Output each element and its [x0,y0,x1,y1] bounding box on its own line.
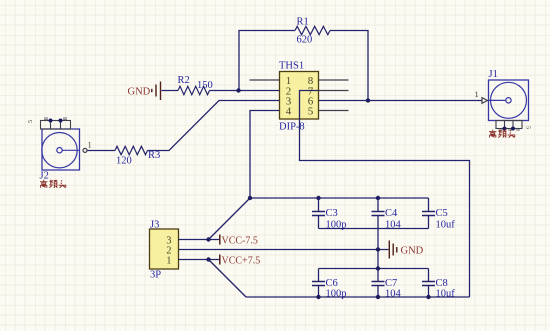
wire GND to R2 [162,90,179,92]
junction R1/pin6 [366,98,370,102]
wire pin 5 stub [319,110,349,112]
wire R1 left leg [239,31,295,91]
junction center column / GND wire [376,247,380,251]
capacitor C7 104 [372,282,385,286]
capacitor C5 10uf [422,212,435,216]
svg-text:4: 4 [286,106,292,118]
svg-text:5: 5 [525,126,532,129]
svg-text:100p: 100p [326,289,347,300]
junction pin1/diagonal [206,257,210,261]
svg-text:DIP-8: DIP-8 [279,122,305,133]
capacitor C8 10uf [422,282,435,286]
wire J3 pin2 to GND [179,249,389,251]
connector J3 (3P) [150,229,179,269]
svg-text:1: 1 [166,256,171,267]
junction C7 top [376,266,380,270]
svg-text:J3: J3 [150,220,159,231]
J3 pin numbers [166,236,171,267]
svg-text:C7: C7 [385,278,397,289]
junction pin3/diagonal [206,237,210,241]
pin numbers 8-5 [308,75,314,118]
label 高频头 J1 (Chinese: tuner head) [489,130,515,138]
ground GND (right power ground) [389,241,397,259]
svg-text:THS1: THS1 [279,61,304,72]
svg-text:104: 104 [385,289,402,300]
wire center column (C4/C7 leads) [377,198,379,297]
wire pin 7 stub [319,90,349,92]
svg-text:3P: 3P [150,270,161,281]
capacitor C3 100p [312,212,325,216]
svg-text:R1: R1 [297,17,309,28]
junction C4 top [376,196,380,200]
connector J2 tuner box [42,129,80,170]
wire pin 3 to R3 (diagonal) [148,101,280,151]
wire R1 right leg [330,31,368,101]
wire pin 6 to J1 [319,100,482,102]
J1 pin 1 arrow [482,98,488,104]
svg-text:R2: R2 [178,75,190,86]
resistor R3 [115,146,148,154]
J2 pin 1 ring [83,148,87,152]
power symbol VCC+7.5 bar [219,255,221,265]
capacitor C6 100p [312,282,325,286]
J2 top pin block [41,118,71,129]
wire bottom row top rail [319,268,429,270]
svg-text:C8: C8 [436,278,448,289]
op-amp U1 THS1 (DIP-8) [280,72,319,120]
ground GND (left power ground) [152,82,161,101]
pin numbers 1-4 [286,75,292,118]
wire J2 to R3 [87,150,115,152]
junction C7 bottom [376,295,380,299]
wire pin 7 inner segment [300,91,319,120]
junction C3 top [316,196,320,200]
svg-text:VCC-7.5: VCC-7.5 [222,236,258,247]
svg-text:104: 104 [385,220,402,231]
wire C6 leads [318,269,320,298]
svg-text:100p: 100p [326,220,347,231]
junction R1/R2/pin2 [236,88,240,92]
svg-text:C5: C5 [436,208,448,219]
wire pin 7 to bottom rail [300,91,470,298]
label 高频头 J2 (Chinese: tuner head) [40,180,66,188]
wire pin 8 stub [319,79,349,81]
wire bottom rail [246,296,470,298]
wire pin 1 stub [250,79,280,81]
junction pin4/rail/diagonal [248,196,252,200]
svg-text:1: 1 [475,89,479,99]
wire J3 pin3 to VCC-7.5 [179,239,220,241]
svg-text:GND: GND [401,246,424,257]
junction C6 bottom [316,295,320,299]
svg-text:1: 1 [88,140,92,150]
svg-text:J1: J1 [489,69,498,80]
power symbol VCC-7.5 bar [219,235,221,245]
svg-text:620: 620 [297,35,313,46]
J2 circle [42,133,80,168]
wire C3 leads [318,198,320,229]
svg-text:VCC+7.5: VCC+7.5 [222,256,261,267]
svg-text:120: 120 [116,156,132,167]
wire J3 pin1 to VCC+7.5 [179,259,220,261]
junction C8 bottom [426,295,430,299]
connector J1 tuner box [489,80,529,121]
svg-text:5: 5 [27,120,34,123]
resistor R2 [178,86,210,94]
wire cap top rail [250,197,429,199]
svg-text:10uf: 10uf [436,289,456,300]
svg-text:C6: C6 [326,278,338,289]
J1 bottom pin block [496,121,522,131]
svg-text:5: 5 [308,106,314,118]
wire R2 to pin 2 [210,90,280,92]
capacitor C4 104 [372,212,385,216]
svg-text:C3: C3 [326,208,338,219]
wire cap mid rail [319,228,429,230]
wire C8 leads [428,269,430,298]
svg-text:GND: GND [128,87,151,98]
wire diagonal pin3 to cap rail [209,198,251,240]
svg-text:C4: C4 [385,208,398,219]
wire pin 4 down to cap rail [250,111,280,199]
svg-text:10uf: 10uf [436,220,456,231]
resistor R1 [295,26,330,34]
wire C5 leads [428,198,430,229]
wire diagonal pin1 to bottom rail [209,260,247,298]
svg-text:150: 150 [197,80,213,91]
svg-text:R3: R3 [148,150,160,161]
J1 circle [489,82,527,118]
